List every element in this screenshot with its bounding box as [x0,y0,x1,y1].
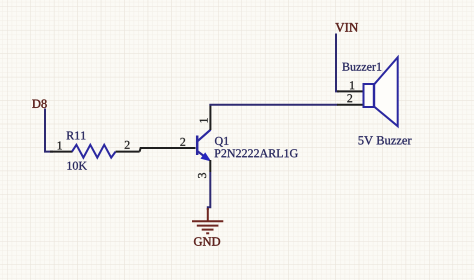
transistor Q1 collector pin line [209,104,211,130]
pin number 3 of Q1 emitter (rotated) [198,173,206,178]
transistor Q1 emitter arrow [201,153,210,160]
wire VIN to buzzer pin 1 [336,34,339,92]
buzzer designator Buzzer1 [342,63,381,71]
pin number 2 of Buzzer1 [347,94,352,102]
ground symbol bar 1 [192,220,223,222]
resistor value 10K [67,162,86,170]
buzzer comment 5V Buzzer [359,136,412,144]
pin number 2 of R11 [125,141,130,149]
transistor Q1 emitter pin line [209,160,211,172]
buzzer Buzzer1 horn [374,57,398,126]
transistor Q1 base bar [196,136,199,156]
wire emitter to ground [208,172,211,210]
wire collector to buzzer [209,104,337,106]
pin number 2 of Q1 base [180,138,185,146]
ground symbol stem [207,208,209,221]
transistor Q1 emitter slant [198,151,210,160]
pin number 1 of Buzzer1 [350,81,354,89]
resistor designator R11 [67,131,86,139]
wire resistor to transistor base [140,148,196,152]
pin number 1 of Q1 collector (rotated) [200,118,208,122]
pin number 1 of R11 [58,141,62,149]
resistor R11 body [72,145,116,158]
transistor Q1 collector slant [198,130,211,142]
net label VIN [335,23,358,32]
buzzer pin 1 line [337,90,364,92]
ground symbol bar 2 [197,225,219,227]
resistor R11 pin 1 line [50,151,73,153]
ground symbol bar 4 [206,232,209,234]
buzzer pin 2 line [337,104,364,106]
wire D8 to resistor [45,109,53,152]
ground symbol bar 3 [202,229,214,231]
buzzer Buzzer1 body rectangle [364,84,374,107]
transistor comment P2N2222ARL1G [215,149,298,157]
resistor R11 pin 2 line [116,151,140,153]
transistor designator Q1 [215,137,228,147]
ground net label GND [194,237,220,245]
net label D8 [32,99,46,107]
